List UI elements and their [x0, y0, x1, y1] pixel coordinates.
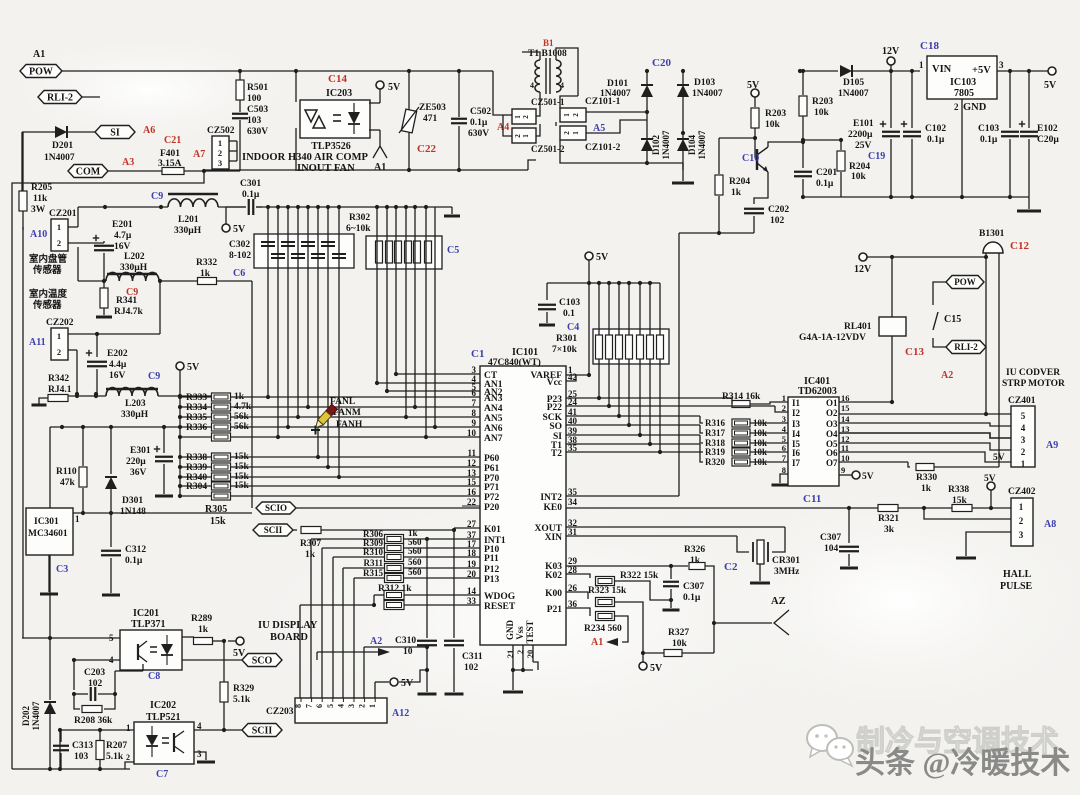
bar C9a — [168, 193, 218, 196]
svg-text:102: 102 — [88, 679, 103, 689]
wires R301 drops — [598, 359, 600, 398]
svg-text:1N4007: 1N4007 — [600, 89, 631, 99]
diode D102 — [646, 112, 648, 138]
svg-text:AN4: AN4 — [484, 404, 503, 414]
svg-text:D301: D301 — [122, 496, 143, 506]
junction ZE503 — [407, 69, 411, 73]
resistors R301 — [596, 335, 603, 359]
wires C302 drops — [267, 207, 269, 397]
wire K02-R322 — [566, 574, 590, 578]
svg-text:R208 36k: R208 36k — [74, 716, 113, 726]
svg-text:1N4007: 1N4007 — [661, 130, 671, 159]
svg-text:3: 3 — [197, 749, 202, 759]
wire R204b top — [840, 139, 842, 141]
svg-text:E101: E101 — [853, 119, 874, 129]
svg-text:ZE503: ZE503 — [419, 103, 446, 113]
net tag SCII — [253, 524, 293, 536]
svg-text:1: 1 — [126, 723, 131, 733]
svg-text:F401: F401 — [160, 149, 180, 159]
svg-text:0.1µ: 0.1µ — [927, 135, 945, 145]
svg-text:BOARD: BOARD — [270, 632, 308, 643]
svg-text:7: 7 — [305, 704, 314, 708]
wire CZ402 pin2 — [924, 508, 1011, 519]
svg-text:I3: I3 — [792, 419, 801, 429]
svg-text:R207: R207 — [106, 741, 127, 751]
svg-text:I7: I7 — [792, 458, 801, 468]
svg-text:I2: I2 — [792, 408, 801, 418]
resistor R312a — [384, 591, 404, 600]
ground bus right — [451, 207, 453, 214]
svg-text:102: 102 — [770, 216, 785, 226]
svg-text:2: 2 — [358, 704, 367, 708]
svg-text:1k: 1k — [921, 484, 932, 494]
net tag RLI-2 — [38, 91, 82, 104]
svg-text:T2: T2 — [551, 449, 562, 459]
svg-text:R203: R203 — [812, 97, 833, 107]
svg-text:1: 1 — [57, 222, 61, 232]
wire CZ201 pin2 — [22, 227, 24, 638]
svg-text:CZ202: CZ202 — [46, 318, 74, 328]
svg-text:R301: R301 — [556, 334, 577, 344]
svg-text:2: 2 — [218, 148, 222, 158]
wire xfmr sec — [560, 96, 578, 108]
svg-text:L202: L202 — [124, 252, 145, 262]
svg-text:8: 8 — [294, 704, 303, 708]
capacitor E201 — [103, 241, 105, 243]
svg-text:4.4µ: 4.4µ — [109, 360, 127, 370]
svg-text:R341: R341 — [116, 296, 137, 306]
svg-text:4.7µ: 4.7µ — [114, 231, 132, 241]
svg-text:SCIO: SCIO — [265, 503, 287, 513]
svg-text:15k: 15k — [210, 516, 226, 527]
svg-text:R320: R320 — [705, 457, 725, 467]
svg-text:56k: 56k — [234, 422, 250, 432]
svg-text:R322 15k: R322 15k — [620, 571, 659, 581]
svg-text:C13: C13 — [905, 346, 924, 358]
svg-text:330µH: 330µH — [120, 263, 148, 273]
svg-text:C2: C2 — [724, 561, 738, 573]
terminal 12V — [887, 57, 895, 65]
svg-text:AN3: AN3 — [484, 394, 503, 404]
mcu IC101 box — [480, 366, 566, 645]
svg-text:1: 1 — [368, 704, 377, 708]
transformer T1 — [535, 60, 540, 92]
svg-text:R205: R205 — [31, 183, 52, 193]
wires CZ203 drops — [299, 605, 301, 698]
cursor icon — [313, 404, 337, 430]
svg-text:47k: 47k — [60, 478, 76, 488]
capacitor C102 — [911, 71, 913, 128]
svg-text:C201: C201 — [816, 168, 837, 178]
capacitor C203 — [73, 660, 75, 690]
svg-text:AN7: AN7 — [484, 434, 503, 444]
wire P23 — [566, 397, 732, 399]
svg-text:C307: C307 — [820, 533, 841, 543]
wire collector — [768, 142, 803, 147]
svg-text:E102: E102 — [1037, 124, 1058, 134]
wire gnd rail — [803, 196, 1029, 198]
diode D105 — [800, 70, 838, 72]
wire CZ101 to diodes — [586, 111, 647, 113]
wire CZ202 pin2 — [68, 349, 77, 351]
svg-text:T1 B1008: T1 B1008 — [528, 49, 567, 59]
capacitor C301 — [226, 206, 246, 208]
wire INT2 right — [566, 495, 679, 497]
svg-text:室内盘管: 室内盘管 — [29, 253, 68, 265]
svg-text:室内温度: 室内温度 — [29, 288, 68, 300]
svg-text:1N4007: 1N4007 — [44, 153, 75, 163]
svg-text:25V: 25V — [855, 141, 872, 151]
svg-text:2: 2 — [57, 238, 61, 248]
wire O7-R330 — [839, 461, 908, 463]
svg-text:O3: O3 — [826, 419, 838, 429]
switch C15 — [933, 282, 946, 305]
wires R302 drops — [376, 207, 378, 383]
svg-text:630V: 630V — [247, 127, 268, 137]
svg-text:C20µ: C20µ — [1037, 135, 1059, 145]
svg-text:R333: R333 — [186, 393, 207, 403]
terminal 5V IC203 — [376, 81, 384, 89]
svg-text:5.1k: 5.1k — [106, 752, 124, 762]
svg-text:R327: R327 — [668, 628, 689, 638]
capacitor C313 — [60, 730, 62, 742]
svg-text:5V: 5V — [596, 252, 609, 263]
terminal 5V L203 — [176, 362, 184, 370]
ground bridge — [672, 182, 694, 185]
svg-text:5: 5 — [1021, 411, 1026, 421]
wire 12V rail — [867, 256, 986, 258]
svg-text:5V: 5V — [388, 82, 401, 93]
svg-text:P12: P12 — [484, 565, 500, 575]
svg-text:471: 471 — [423, 114, 438, 124]
wire IC201 pin4 — [74, 659, 120, 661]
svg-text:5V: 5V — [401, 678, 414, 689]
svg-text:A1: A1 — [374, 162, 386, 173]
svg-text:R302: R302 — [349, 213, 370, 223]
fuse F401 — [162, 168, 184, 175]
svg-text:C7: C7 — [156, 769, 168, 780]
wire bottom rail to CZ501 — [528, 160, 536, 170]
svg-text:560: 560 — [408, 557, 422, 567]
svg-text:INT2: INT2 — [540, 493, 562, 503]
svg-text:34: 34 — [568, 497, 578, 507]
resistor R208 — [74, 694, 80, 709]
svg-text:6~10k: 6~10k — [346, 224, 371, 234]
svg-text:B1: B1 — [543, 38, 554, 48]
wire IC301 gnd — [48, 555, 50, 592]
svg-text:1: 1 — [563, 113, 571, 117]
capacitor C307b — [848, 508, 850, 543]
capacitor C502 — [458, 71, 460, 117]
svg-text:15k: 15k — [234, 462, 250, 472]
svg-text:C202: C202 — [768, 205, 789, 215]
resistor bank R301 box — [593, 329, 669, 364]
svg-text:103: 103 — [74, 752, 89, 762]
svg-text:16V: 16V — [109, 371, 126, 381]
terminal 5V out — [1048, 67, 1056, 75]
wire C6 drop — [251, 281, 253, 508]
wire xfmr right — [556, 48, 578, 96]
diode D202 — [49, 638, 51, 700]
diode D104 — [677, 139, 689, 151]
svg-text:A10: A10 — [30, 229, 47, 240]
svg-text:R326: R326 — [684, 545, 705, 555]
svg-text:KE0: KE0 — [544, 503, 563, 513]
wire IC203 pins — [295, 71, 297, 102]
svg-text:I6: I6 — [792, 448, 801, 458]
svg-text:R311: R311 — [363, 558, 383, 568]
svg-text:VIN: VIN — [932, 64, 952, 75]
svg-text:CZ502: CZ502 — [207, 126, 235, 136]
svg-text:K00: K00 — [545, 589, 562, 599]
svg-text:R204: R204 — [849, 162, 870, 172]
wire CZ201 pin1 — [68, 226, 78, 228]
svg-text:R304: R304 — [186, 482, 207, 492]
svg-text:C502: C502 — [470, 107, 491, 117]
svg-text:P61: P61 — [484, 464, 500, 474]
diode D201 — [55, 126, 67, 138]
svg-text:P22: P22 — [547, 403, 563, 413]
svg-text:SO: SO — [549, 422, 562, 432]
svg-text:1k: 1k — [198, 625, 209, 635]
svg-text:10k: 10k — [851, 172, 867, 182]
svg-text:630V: 630V — [468, 129, 489, 139]
svg-text:104: 104 — [824, 544, 839, 554]
svg-text:COM: COM — [76, 167, 101, 178]
svg-text:R338: R338 — [948, 485, 969, 495]
svg-text:5.1k: 5.1k — [233, 695, 251, 705]
svg-text:102: 102 — [464, 663, 479, 673]
svg-text:1N148: 1N148 — [120, 507, 146, 517]
capacitor C103b — [546, 283, 548, 300]
inductor L202 — [78, 280, 106, 282]
wire IC202 pin4 — [194, 729, 242, 731]
svg-text:IC201: IC201 — [133, 608, 159, 619]
svg-text:3k: 3k — [884, 525, 895, 535]
svg-text:2: 2 — [522, 115, 530, 119]
resistor R326 — [689, 563, 705, 570]
wire RLI-2 stub — [82, 96, 100, 98]
svg-text:2: 2 — [1019, 516, 1024, 526]
wire C202 rail — [679, 232, 754, 234]
svg-text:R330: R330 — [916, 473, 937, 483]
svg-text:C22: C22 — [417, 143, 436, 155]
svg-text:O1: O1 — [826, 398, 838, 408]
svg-text:C103: C103 — [559, 298, 580, 308]
svg-text:C302: C302 — [229, 240, 250, 250]
wire O4-CZ401 — [839, 433, 1011, 438]
svg-text:1: 1 — [1021, 459, 1026, 469]
svg-text:330µH: 330µH — [174, 226, 202, 236]
wire IC201 in5 — [22, 637, 120, 639]
svg-text:C102: C102 — [925, 124, 946, 134]
wire AN2 link — [387, 390, 480, 392]
regulator IC103 7805 — [927, 56, 997, 99]
svg-text:D102: D102 — [651, 135, 661, 155]
svg-text:CZ203: CZ203 — [266, 707, 294, 717]
svg-text:15k: 15k — [234, 452, 250, 462]
svg-text:CR301: CR301 — [772, 556, 800, 566]
wire AN1 link — [377, 382, 480, 384]
wire O3-CZ401 — [839, 423, 1011, 426]
svg-text:C1: C1 — [471, 348, 484, 360]
svg-text:TEST: TEST — [525, 620, 535, 643]
svg-text:9: 9 — [841, 465, 845, 475]
svg-text:12V: 12V — [882, 46, 900, 57]
terminal 5V R327 — [642, 653, 644, 662]
capacitor C307c — [670, 566, 672, 579]
svg-text:XIN: XIN — [545, 533, 563, 543]
svg-text:R315: R315 — [363, 568, 383, 578]
svg-text:1: 1 — [572, 131, 580, 135]
wire XIN — [566, 535, 737, 537]
svg-text:5V: 5V — [984, 474, 996, 484]
wire AZ — [714, 622, 772, 624]
svg-text:RL401: RL401 — [844, 322, 872, 332]
opto-triac IC203 TLP3526 — [300, 100, 370, 138]
resistor R204b — [840, 140, 842, 150]
svg-text:P21: P21 — [547, 605, 563, 615]
bar L202 — [107, 273, 157, 276]
svg-text:R310: R310 — [363, 547, 383, 557]
resistors R338-R304 — [178, 455, 182, 459]
wire 5V bus — [588, 260, 590, 283]
svg-text:C14: C14 — [328, 73, 347, 85]
svg-text:O6: O6 — [826, 448, 838, 458]
svg-text:C15: C15 — [944, 314, 961, 325]
svg-text:5V: 5V — [862, 472, 874, 482]
wire IC203 out — [369, 129, 380, 131]
svg-text:3: 3 — [999, 60, 1004, 70]
svg-text:PULSE: PULSE — [1000, 581, 1033, 592]
svg-text:2: 2 — [57, 347, 61, 357]
svg-text:P71: P71 — [484, 483, 500, 493]
capacitor C312 — [110, 513, 112, 547]
svg-text:C11: C11 — [803, 493, 821, 505]
svg-text:SCII: SCII — [252, 726, 273, 737]
svg-text:C301: C301 — [240, 179, 261, 189]
capacitor bank C302 box — [254, 234, 354, 268]
scan highlight blobs — [210, 470, 870, 770]
svg-text:TLP371: TLP371 — [131, 619, 165, 630]
svg-text:SI: SI — [110, 128, 120, 139]
svg-text:36V: 36V — [130, 468, 147, 478]
svg-text:R316: R316 — [705, 418, 725, 428]
junction IC203 — [294, 69, 298, 73]
svg-text:C310: C310 — [395, 636, 416, 646]
svg-text:D202: D202 — [21, 706, 31, 726]
svg-text:MC34601: MC34601 — [28, 529, 68, 539]
terminal 5V R301 — [585, 252, 593, 260]
svg-text:K01: K01 — [484, 525, 501, 535]
transistor C10 — [754, 138, 756, 158]
resistors R316-R320 — [566, 415, 700, 417]
svg-text:AN5: AN5 — [484, 414, 503, 424]
svg-text:0.1µ: 0.1µ — [980, 135, 998, 145]
wire P21-R234 — [566, 608, 590, 616]
wire IC202 in1 — [60, 729, 134, 731]
wire VAREF — [566, 374, 589, 376]
svg-text:2: 2 — [126, 753, 130, 762]
svg-text:1: 1 — [1019, 502, 1024, 512]
ground rail sym — [1028, 197, 1030, 209]
svg-text:7×10k: 7×10k — [552, 345, 578, 355]
wire IC301 out — [73, 512, 252, 514]
svg-text:IC103: IC103 — [950, 77, 976, 88]
svg-text:1: 1 — [514, 115, 522, 119]
svg-text:A11: A11 — [29, 337, 46, 348]
svg-text:5V: 5V — [650, 663, 663, 674]
svg-text:RJ4.7k: RJ4.7k — [114, 307, 143, 317]
svg-text:P20: P20 — [484, 503, 500, 513]
resistor R501 — [239, 71, 241, 82]
svg-text:R203: R203 — [765, 109, 786, 119]
terminal 5V L201 — [225, 207, 227, 224]
svg-text:SCO: SCO — [252, 656, 273, 667]
wire XOUT — [566, 526, 785, 528]
svg-text:2: 2 — [1021, 447, 1026, 457]
svg-text:8-102: 8-102 — [229, 251, 251, 261]
svg-text:11k: 11k — [33, 194, 48, 204]
resistors R302 — [376, 241, 383, 263]
svg-text:R204: R204 — [729, 177, 750, 187]
wire 7805 out — [997, 70, 1052, 72]
resistor R312b — [384, 601, 404, 610]
svg-text:5: 5 — [326, 704, 335, 708]
svg-text:GND: GND — [963, 102, 987, 113]
inductor L201 — [78, 206, 168, 208]
wire CZ501 links — [503, 114, 512, 116]
svg-text:C4: C4 — [567, 322, 579, 333]
svg-text:A2: A2 — [941, 370, 953, 381]
svg-text:RESET: RESET — [484, 602, 516, 612]
svg-text:10k: 10k — [672, 639, 688, 649]
svg-text:C18: C18 — [920, 40, 939, 52]
svg-text:P60: P60 — [484, 454, 500, 464]
svg-text:O7: O7 — [826, 458, 838, 468]
svg-text:C20: C20 — [652, 57, 671, 69]
resistor R307 — [293, 529, 297, 531]
svg-text:4: 4 — [560, 81, 564, 90]
svg-text:1: 1 — [919, 60, 924, 70]
svg-text:O4: O4 — [826, 429, 838, 439]
wire P22 — [566, 405, 775, 407]
wire E301 row — [50, 426, 180, 428]
IC401 gnd pin8 — [780, 474, 788, 483]
diode D103 — [682, 71, 684, 84]
svg-text:D104: D104 — [687, 135, 697, 155]
svg-text:4.7k: 4.7k — [234, 402, 252, 412]
svg-text:R501: R501 — [247, 83, 268, 93]
driver IC401 box — [788, 397, 839, 486]
svg-text:0.1µ: 0.1µ — [683, 593, 701, 603]
capacitor C202 — [744, 208, 764, 210]
svg-text:R323 15k: R323 15k — [588, 586, 627, 596]
junction FAN dots — [306, 405, 310, 409]
wire 5V to IC203 — [379, 89, 381, 103]
inductor L203 — [68, 395, 106, 397]
svg-text:B1301: B1301 — [979, 229, 1005, 239]
diode D301 — [110, 427, 112, 474]
svg-text:E301: E301 — [130, 446, 151, 456]
svg-text:D105: D105 — [843, 78, 864, 88]
wire E201 top — [68, 242, 104, 244]
svg-text:2: 2 — [572, 113, 580, 117]
svg-text:6: 6 — [782, 443, 786, 453]
svg-text:0.1µ: 0.1µ — [242, 190, 260, 200]
svg-text:2: 2 — [954, 102, 959, 112]
svg-text:R110: R110 — [56, 467, 77, 477]
